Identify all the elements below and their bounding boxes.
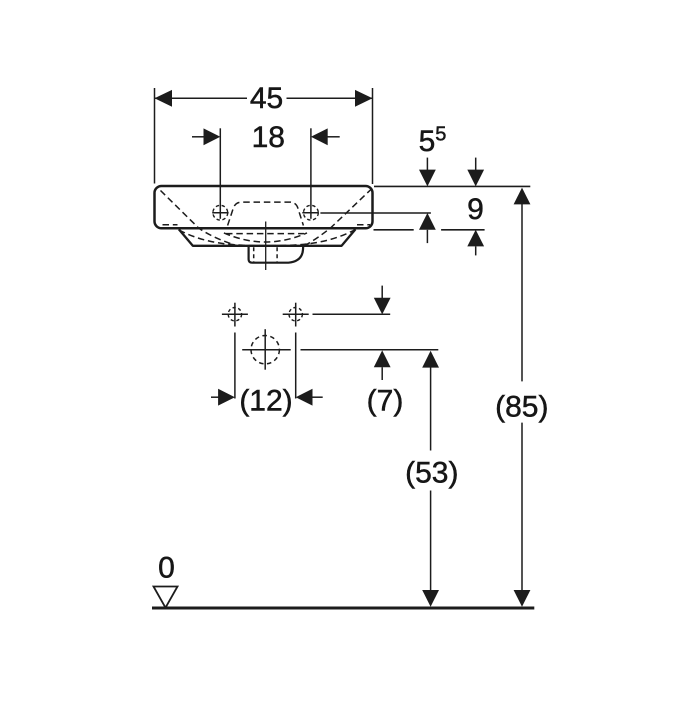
svg-text:9: 9 [467,193,484,226]
tap center leader line [320,212,431,214]
fixing hole right [289,308,302,321]
tap hole left [213,205,228,220]
svg-text:(7): (7) [367,385,404,418]
dim 45: line [155,97,248,99]
dim 9: up arrow [467,230,484,247]
bowl right wall (dashed) [305,189,372,246]
fixing hole leader line [313,313,391,315]
basin lower body [179,229,356,245]
svg-text:0: 0 [158,552,175,585]
dim (85) vertical line [514,188,531,205]
svg-text:(12): (12) [239,385,292,418]
fixing hole left [228,308,241,321]
svg-text:(85): (85) [495,390,548,423]
rim bottom extension line [374,229,414,231]
back rim dashed right [357,224,370,226]
back rim dashed left [163,224,178,226]
drain housing [249,246,304,263]
svg-text:18: 18 [252,121,285,154]
dim (7): down arrow [381,286,383,299]
dim (12): extension lines [234,333,236,399]
dim (53) vertical line [422,351,439,368]
bowl left wall (dashed) [161,191,239,247]
bowl bottom flat dashed line [226,233,304,235]
dim (12): arrows [211,396,219,398]
svg-text:45: 45 [250,82,283,115]
floor line [152,607,534,610]
bowl bottom inner arc (dashed) [224,233,307,242]
dim 18: extension lines [219,128,221,219]
datum triangle [154,587,178,608]
dim 5.5: down arrow [426,158,428,171]
bowl outer silhouette arc (dashed) [179,230,355,246]
rim top extension line [374,185,530,187]
trap outlet circle [251,336,279,364]
drain centerline [265,222,267,271]
dim 18: tails and arrows [192,136,204,138]
svg-text:(53): (53) [405,457,458,490]
basin rim outline [155,186,373,228]
dim 45: extension lines [154,88,156,184]
dim 5.5: up arrow [419,213,436,230]
tap hole right [304,205,319,220]
tap deck (dashed) [228,202,304,225]
dim 45: arrows [155,90,173,107]
drain hidden edges (dashed) [253,247,255,261]
dim (7): up arrow [374,350,391,367]
trap leader line [301,349,439,351]
dim 9: down arrow [475,158,477,171]
